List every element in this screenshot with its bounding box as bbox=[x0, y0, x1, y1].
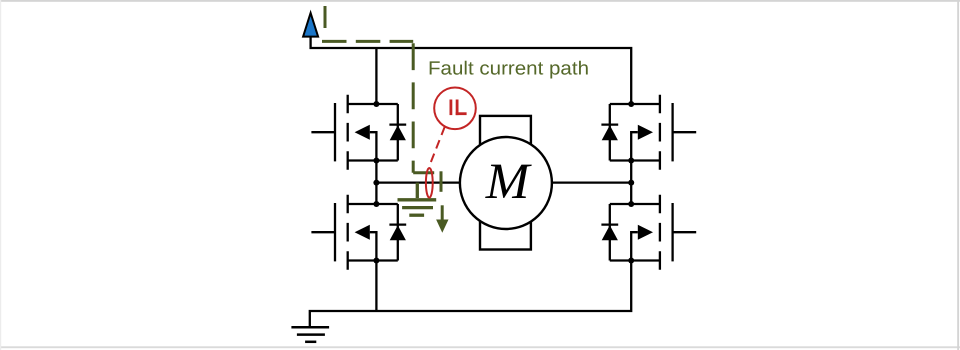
svg-text:Fault current path: Fault current path bbox=[428, 58, 589, 79]
svg-text:M: M bbox=[485, 154, 532, 210]
